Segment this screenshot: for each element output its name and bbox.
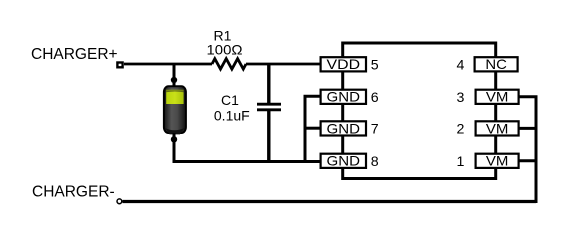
terminal CHARGER+	[117, 63, 122, 68]
pin VM 2 box	[476, 120, 519, 136]
pin VM 3 box	[476, 89, 519, 105]
pin GND 8 box	[321, 153, 366, 169]
svg-text:4: 4	[457, 57, 465, 73]
pin NC box	[475, 56, 518, 72]
IC U1 body	[343, 43, 496, 179]
pin VM 1 box	[476, 153, 519, 169]
svg-text:100Ω: 100Ω	[207, 42, 243, 58]
diode D1 (LED cylinder)	[164, 86, 186, 134]
wire diode to rail	[173, 133, 176, 162]
junction dot diode bottom	[171, 136, 177, 142]
svg-text:CHARGER+: CHARGER+	[31, 46, 118, 63]
svg-text:CHARGER-: CHARGER-	[32, 184, 115, 201]
pin GND 6 box	[321, 89, 366, 105]
terminal CHARGER-	[117, 199, 122, 204]
pin GND 7 box	[321, 120, 366, 136]
svg-text:0.1uF: 0.1uF	[214, 108, 250, 124]
resistor R1	[212, 59, 246, 69]
wire node to capacitor C1	[267, 64, 270, 104]
pin VDD box	[321, 56, 366, 72]
svg-text:3: 3	[457, 90, 465, 106]
wire VM1 to bus	[519, 159, 536, 162]
svg-text:C1: C1	[221, 92, 239, 108]
capacitor C1	[257, 104, 281, 110]
svg-text:6: 6	[371, 90, 379, 106]
wire terminal to resistor R1	[124, 63, 212, 66]
svg-text:VM: VM	[486, 89, 509, 105]
wire node to diode	[173, 64, 176, 88]
svg-text:8: 8	[371, 154, 379, 170]
junction dot diode top	[171, 77, 177, 83]
svg-text:VM: VM	[486, 153, 509, 169]
svg-text:GND: GND	[327, 153, 361, 169]
svg-text:1: 1	[457, 154, 465, 170]
wire ground rail	[174, 160, 321, 162]
svg-text:VDD: VDD	[327, 56, 361, 72]
svg-text:7: 7	[371, 121, 379, 137]
wire VM2 to bus	[519, 127, 536, 130]
svg-text:NC: NC	[485, 56, 507, 72]
wire capacitor to rail	[267, 111, 270, 162]
wire gnd bus to GND7	[305, 127, 321, 130]
svg-text:GND: GND	[327, 89, 361, 105]
svg-text:5: 5	[371, 57, 379, 73]
svg-text:VM: VM	[486, 120, 509, 136]
wire resistor to pin VDD	[246, 63, 321, 66]
wire bottom CHARGER-	[123, 200, 537, 203]
svg-text:GND: GND	[327, 120, 361, 136]
svg-text:2: 2	[457, 121, 465, 137]
wire gnd bus vertical	[305, 96, 321, 161]
wire VM bus right	[519, 97, 538, 202]
